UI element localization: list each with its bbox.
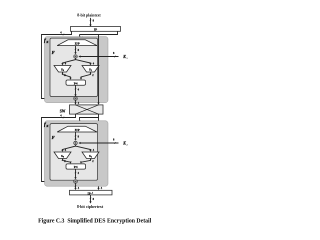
svg-text:8-bit ciphertext: 8-bit ciphertext — [77, 204, 104, 209]
wire branch feed into E/P round2 with 4 slash — [80, 118, 99, 125]
round 2 shaded box fK2 — [45, 121, 109, 186]
svg-text:P4: P4 — [74, 165, 78, 169]
component S1 round 1 — [82, 66, 99, 73]
component S1 round 2 — [82, 152, 99, 159]
box IP — [71, 27, 121, 32]
svg-text:F: F — [52, 50, 55, 55]
wire E/P1 to XOR-R1 with 8 slash — [75, 46, 77, 54]
svg-text:SW: SW — [60, 109, 66, 113]
wire XOR-L1 down to SW with 4 slash — [75, 100, 77, 103]
wire key K2 into XOR with 8 slash — [79, 142, 118, 144]
wire IP right half across and down — [80, 31, 118, 34]
wire plaintext into IP with 8 slash — [90, 18, 92, 25]
round 1 inner box F — [50, 38, 98, 96]
wire feed into E/P round1 with 4 slash — [79, 35, 81, 39]
component S0 round 1 — [54, 66, 71, 73]
svg-text:Figure C.3 Simplified DES Enc: Figure C.3 Simplified DES Encryption Det… — [38, 218, 151, 224]
XOR gate round 1 left-half — [74, 97, 77, 100]
wire XOR1 fanout to S1 with 4 slash — [76, 60, 91, 65]
component E/P round 1 — [57, 40, 97, 46]
XOR gate round 2 right-half — [74, 141, 77, 144]
box IP inverse — [70, 190, 113, 195]
wire XOR-L2 down into IP-1 with 4 slash — [75, 183, 77, 189]
component S0 round 2 — [54, 152, 71, 159]
component SW swap — [70, 105, 104, 114]
component P4 round 1 — [66, 80, 86, 85]
component E/P round 2 — [57, 126, 97, 132]
wire XOR2 fanout to S1 round2 with 4 slash — [76, 146, 91, 151]
wire XOR2 fanout to S0 round2 with 4 slash — [63, 145, 76, 151]
round 1 shaded box fK1 — [45, 37, 109, 103]
wire XOR1 fanout to S0 with 4 slash — [63, 58, 76, 64]
wire SW right output down bypass to IP-1 — [98, 114, 100, 189]
svg-text:IP: IP — [94, 28, 97, 32]
wire key K1 into XOR with 8 slash — [79, 56, 118, 58]
wire SW left output down left side to round2 XOR-L with 4 slash — [42, 114, 76, 181]
svg-text:P4: P4 — [74, 81, 78, 85]
XOR gate round 2 left-half — [74, 180, 77, 183]
wire S1 to P4 with 2 slash — [81, 72, 91, 78]
component P4 round 2 — [66, 164, 86, 169]
wire P4 to XOR-L1 with 4 slash — [75, 85, 77, 95]
wire S1 round2 to P4 with 2 slash — [81, 159, 91, 163]
svg-text:F: F — [52, 135, 55, 140]
round 2 inner box F — [50, 124, 98, 181]
svg-text:8-bit plaintext: 8-bit plaintext — [77, 14, 101, 18]
svg-text:E/P: E/P — [75, 42, 80, 46]
wire IP left half down to round1 XOR-L with 4 slash — [42, 31, 73, 98]
wire IP-1 output with 8 slash — [90, 195, 92, 202]
XOR gate round 1 right-half — [74, 55, 77, 58]
svg-text:E/P: E/P — [75, 128, 80, 132]
wire bypass right half down to SW — [98, 35, 100, 104]
wire E/P2 to XOR-R2 with 8 slash — [75, 132, 77, 140]
wire S0 to P4 with 2 slash — [63, 72, 71, 78]
wire S0 round2 to P4 with 2 slash — [63, 159, 71, 163]
wire P4 round2 to XOR-L2 with 4 slash — [75, 169, 77, 178]
